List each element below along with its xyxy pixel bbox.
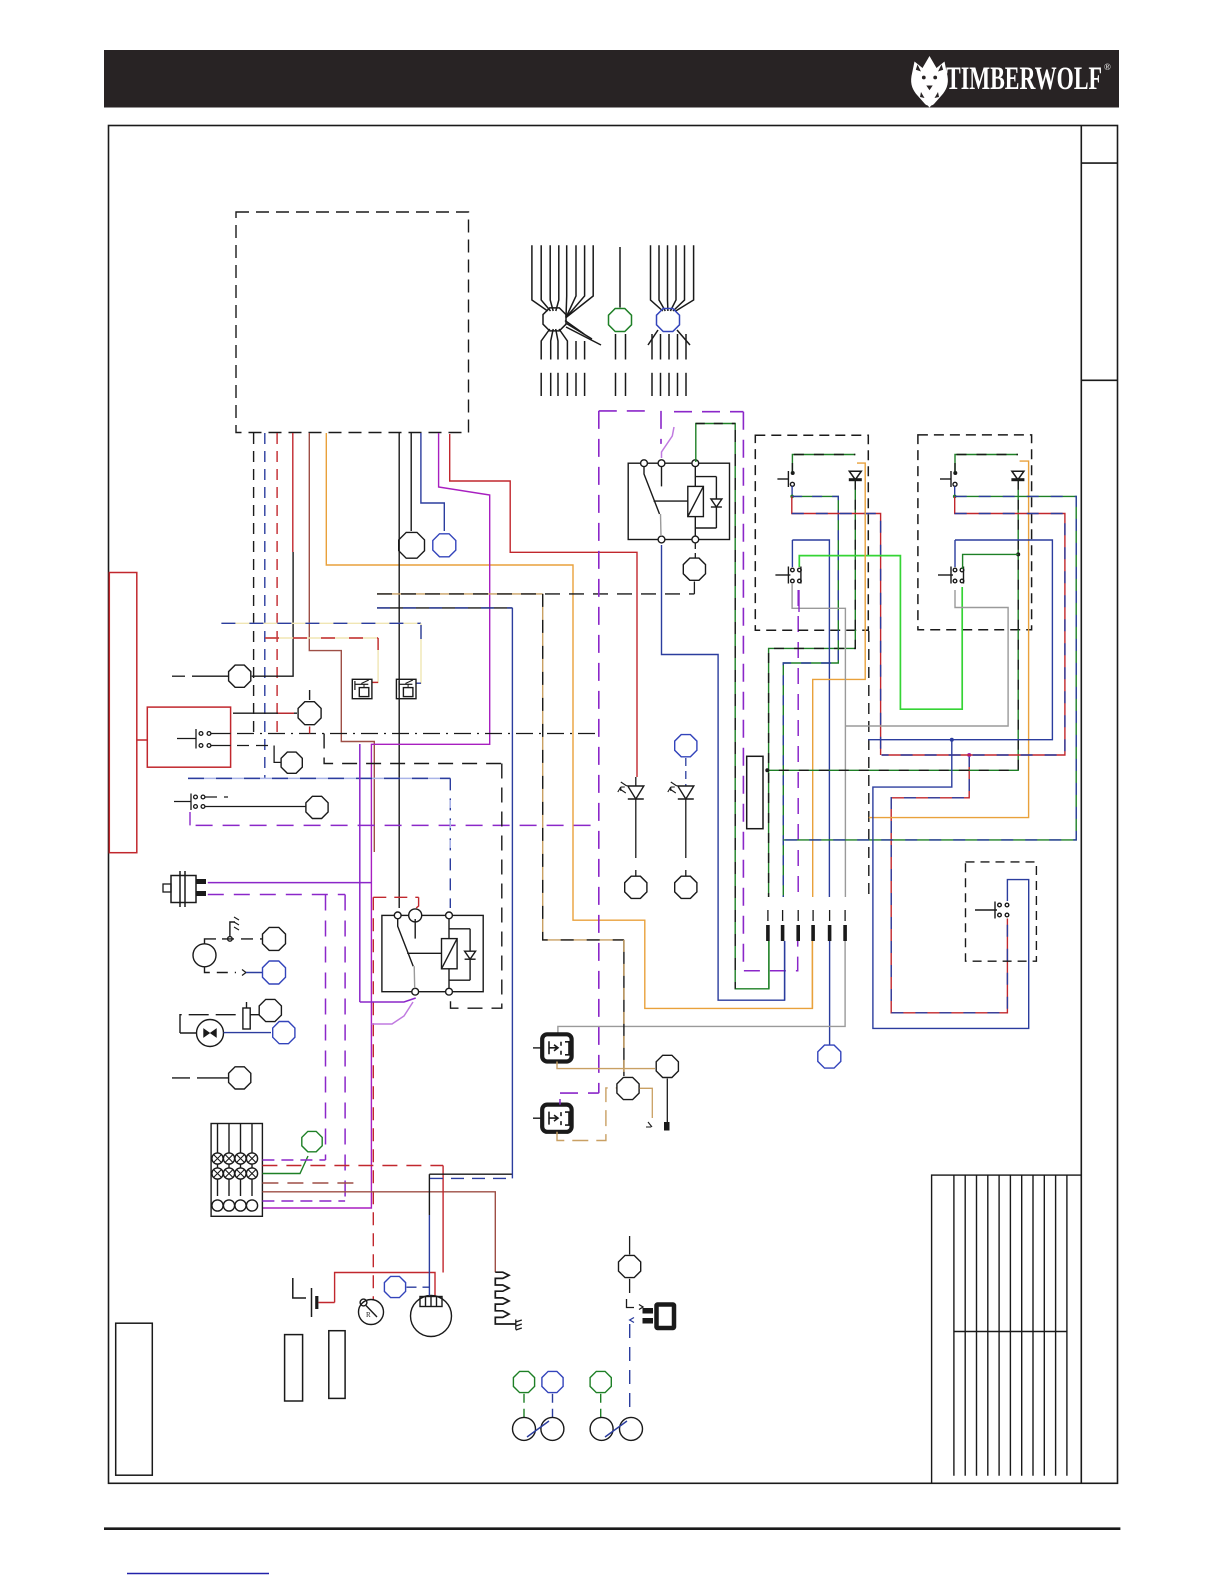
svg-text:TIMBERWOLF: TIMBERWOLF bbox=[946, 61, 1102, 97]
svg-text:®: ® bbox=[1104, 62, 1111, 72]
svg-text:R: R bbox=[366, 1311, 371, 1319]
